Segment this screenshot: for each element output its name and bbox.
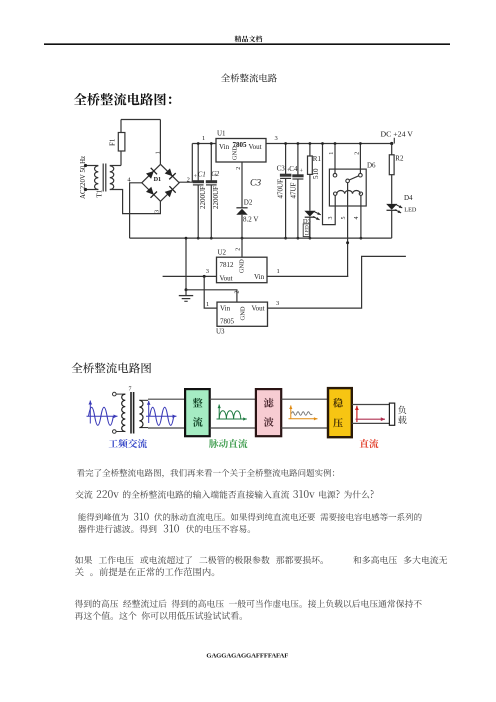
wire to regulator bottom xyxy=(281,427,328,429)
wire node3 to U3 Vin xyxy=(204,276,217,308)
svg-text:D2: D2 xyxy=(244,199,253,207)
transformer secondary coil xyxy=(110,166,114,190)
svg-text:T1: T1 xyxy=(96,189,104,197)
caption 直流 xyxy=(360,439,379,448)
caption 脉动直流 xyxy=(209,439,247,448)
svg-text:4: 4 xyxy=(354,217,360,220)
svg-text:AC220V 50 Hz: AC220V 50 Hz xyxy=(80,156,87,199)
svg-text:5: 5 xyxy=(341,217,347,220)
wire to filter top xyxy=(210,398,256,400)
svg-text:1: 1 xyxy=(154,151,161,154)
svg-text:Vout: Vout xyxy=(249,143,262,151)
fuse F1 xyxy=(118,133,125,152)
LED D4 arrow 2 xyxy=(395,210,401,213)
paragraph 4 line 2 xyxy=(75,567,214,576)
wire top run to bridge xyxy=(121,119,160,121)
paragraph 3 line 1 xyxy=(78,513,422,521)
heading 全桥整流电路图： xyxy=(74,93,172,106)
load resistor xyxy=(389,403,394,425)
caption 工频交流 xyxy=(109,439,147,448)
svg-text:2: 2 xyxy=(235,291,241,294)
diode D1a (left-top edge) xyxy=(146,171,154,179)
junction C3 bottom xyxy=(284,237,287,240)
svg-text:3: 3 xyxy=(154,210,161,213)
svg-text:LED: LED xyxy=(404,207,417,214)
wire fuse bottom lead xyxy=(120,151,122,166)
svg-text:D1: D1 xyxy=(154,176,162,183)
wire secondary top to fuse xyxy=(110,165,121,167)
svg-text:7812: 7812 xyxy=(220,261,235,269)
wire R1 to D3 xyxy=(309,174,311,210)
paragraph 1 xyxy=(77,469,334,478)
junction D3 bus xyxy=(309,237,312,240)
transformer primary coil xyxy=(95,166,99,190)
node AC input top terminal xyxy=(84,164,87,167)
wire relay pin 2 xyxy=(359,144,361,174)
node AC input bottom terminal xyxy=(84,188,87,191)
wire relay pin 3 inside xyxy=(334,195,336,206)
svg-text:47UF: 47UF xyxy=(290,182,298,198)
svg-text:2: 2 xyxy=(354,152,360,155)
block transformer core xyxy=(130,392,132,434)
header 精品文档 xyxy=(235,36,263,43)
wire R2 to D4 xyxy=(391,175,393,204)
junction C4 top xyxy=(297,142,300,145)
wire to rectifier bottom xyxy=(148,427,185,429)
wire U2 Vin to relay pin5 xyxy=(267,275,348,277)
wire node 4 down to bus xyxy=(130,183,142,238)
title 全桥整流电路 xyxy=(221,74,277,83)
wire U1 GND down to D2 xyxy=(241,162,243,208)
arrow DC horizontal xyxy=(356,418,386,420)
junction ground bus xyxy=(185,237,188,240)
paragraph 3 line 2 xyxy=(78,525,250,533)
resistor R1 xyxy=(308,156,313,174)
svg-text:+: + xyxy=(300,169,304,175)
relay D6 xyxy=(329,169,366,206)
wire +24V rail xyxy=(266,143,392,145)
wire ground to U3 GND pin xyxy=(186,290,237,302)
junction node 3 (U2 out) xyxy=(203,275,206,278)
junction C2 top xyxy=(210,142,213,145)
svg-text:Vin: Vin xyxy=(254,273,265,281)
wire fuse top lead xyxy=(120,120,122,133)
regulator U1 7805 xyxy=(216,139,266,163)
relay contact right xyxy=(359,173,363,177)
svg-text:R1: R1 xyxy=(313,155,322,163)
svg-text:7: 7 xyxy=(129,387,132,393)
svg-text:7805: 7805 xyxy=(220,318,235,326)
svg-text:C3: C3 xyxy=(250,179,261,189)
svg-text:D4: D4 xyxy=(404,194,413,202)
regulator U3 7805 xyxy=(217,302,268,326)
relay coil terminal right xyxy=(359,192,362,195)
wire down into bridge node 1 xyxy=(159,120,161,165)
regulator U2 7812 xyxy=(217,257,268,283)
svg-text:2: 2 xyxy=(235,248,241,251)
capacitor C4 47UF xyxy=(297,144,299,175)
LED D3 xyxy=(304,211,315,217)
svg-text:GAGGAGAGGAFFFFAFAF: GAGGAGAGGAFFFFAFAF xyxy=(206,652,288,659)
junction ground node xyxy=(185,288,188,291)
svg-text:GND: GND xyxy=(239,306,246,320)
svg-text:2: 2 xyxy=(236,167,242,170)
svg-text:470UF: 470UF xyxy=(277,179,285,199)
svg-text:F1: F1 xyxy=(109,138,117,146)
block transformer xyxy=(113,392,117,396)
svg-text:1: 1 xyxy=(202,135,205,142)
wire rail into U1 Vin xyxy=(192,143,216,145)
transformer core line left xyxy=(102,164,104,192)
junction C4 bottom xyxy=(297,237,300,240)
wire relay pin 1 xyxy=(334,144,336,174)
arrow DC vertical xyxy=(356,406,358,422)
junction relay pin1 rail xyxy=(334,142,337,145)
junction C1 top xyxy=(197,142,200,145)
wire to rectifier top xyxy=(148,398,185,400)
transformer core line right xyxy=(105,164,107,192)
junction C1 bottom xyxy=(197,237,200,240)
wire U3 Vout output xyxy=(268,256,406,308)
relay switch arm xyxy=(349,176,359,180)
svg-text:GND: GND xyxy=(239,259,246,273)
LED D4 xyxy=(386,204,397,210)
wire relay pin 4 down to bus xyxy=(360,195,362,238)
junction C3 top xyxy=(284,142,287,145)
block 稳压 xyxy=(328,388,352,437)
capacitor C3 470UF xyxy=(285,144,287,175)
block 滤波 xyxy=(256,389,281,436)
input sine waveform xyxy=(89,401,91,424)
ground xyxy=(185,238,187,290)
paragraph 5 line 1 xyxy=(75,600,422,608)
capacitor C2 2200UF xyxy=(210,144,212,181)
svg-text:C2: C2 xyxy=(211,171,220,178)
wire to filter bottom xyxy=(210,427,256,429)
wire bus to U2 GND pin xyxy=(241,238,243,257)
svg-text:1: 1 xyxy=(329,152,335,155)
wire ground bus xyxy=(130,237,392,239)
ripple waveform xyxy=(290,405,292,418)
svg-text:U1: U1 xyxy=(217,130,226,138)
resistor R2 xyxy=(389,155,394,175)
svg-text:2200UF: 2200UF xyxy=(199,186,207,209)
junction pin3-wire rail xyxy=(321,142,324,145)
block transformer primary coil xyxy=(122,394,126,431)
header rule xyxy=(44,43,450,45)
bridge rectifier D1 diamond xyxy=(142,164,179,201)
wire D2 to bus xyxy=(241,215,243,238)
svg-text:GND: GND xyxy=(231,146,238,160)
svg-text:3: 3 xyxy=(206,268,209,275)
svg-text:3: 3 xyxy=(276,300,279,307)
svg-text:U2: U2 xyxy=(218,248,227,256)
svg-text:C1: C1 xyxy=(198,171,206,178)
wire node 2 up to rail xyxy=(179,144,192,183)
paragraph 5 line 2 xyxy=(75,612,242,620)
svg-text:DC +24 V: DC +24 V xyxy=(381,129,414,138)
wire D4 to bus xyxy=(391,210,393,238)
junction C2 bottom xyxy=(210,237,213,240)
paragraph 4 line 1 xyxy=(75,556,447,564)
svg-text:U3: U3 xyxy=(216,328,225,336)
junction R1 rail xyxy=(309,142,312,145)
rectified humps waveform xyxy=(218,405,220,420)
svg-text:R2: R2 xyxy=(395,155,404,163)
zener diode D2 8.2V xyxy=(236,207,247,209)
block 整流 xyxy=(185,389,210,436)
svg-text:1: 1 xyxy=(277,268,280,275)
wire U2 Vout stub xyxy=(163,275,217,277)
junction DC +24V xyxy=(390,142,393,145)
junction D2 bus xyxy=(241,237,244,240)
wire to load bottom xyxy=(352,422,390,424)
svg-text:1: 1 xyxy=(206,301,209,308)
wire to load top xyxy=(352,404,390,406)
svg-text:Vin: Vin xyxy=(220,305,231,313)
wire rail to R1 xyxy=(309,144,311,157)
diode D1b (top-right edge) xyxy=(165,168,173,176)
paragraph 2 xyxy=(75,490,373,498)
svg-text:Vout: Vout xyxy=(252,305,265,313)
relay coil terminal left xyxy=(334,192,337,195)
caption 全桥整流电路图 xyxy=(72,363,151,374)
junction relay pin2 rail xyxy=(359,142,362,145)
svg-text:D6: D6 xyxy=(367,162,376,170)
svg-text:3: 3 xyxy=(328,217,334,220)
wire DC label stub xyxy=(393,138,395,144)
block transformer secondary coil xyxy=(139,400,143,427)
wire AC input top stub xyxy=(86,165,99,167)
svg-text:510: 510 xyxy=(312,168,320,179)
svg-text:Vout: Vout xyxy=(220,275,233,283)
LED D4 arrow 1 xyxy=(396,205,402,208)
svg-text:8.2 V: 8.2 V xyxy=(243,216,258,224)
label 负载 xyxy=(398,406,406,414)
wire D3 to bus xyxy=(309,217,311,238)
relay contact common xyxy=(346,179,350,183)
wire rail to R2 xyxy=(391,144,393,155)
wire relay pin 5 down to U2 xyxy=(347,183,349,277)
LED D3 arrow 1 xyxy=(314,212,321,215)
capacitor C1 2200UF xyxy=(197,144,199,181)
svg-text:Vin: Vin xyxy=(219,143,230,151)
wire secondary bottom to bridge node 3 xyxy=(110,190,161,214)
svg-text:C3: C3 xyxy=(277,165,286,173)
svg-text:C4: C4 xyxy=(289,165,298,173)
wire AC input bottom stub xyxy=(86,189,99,191)
relay contact left xyxy=(333,173,337,177)
LED D3 arrow 2 xyxy=(313,217,320,220)
svg-text:3: 3 xyxy=(275,135,278,142)
secondary sine waveform xyxy=(148,401,150,423)
wire rail to relay pin 3 xyxy=(323,144,336,225)
diode D1c (left-bottom edge) xyxy=(146,187,154,195)
junction relay pin5 below bus xyxy=(346,241,349,244)
wire to regulator top xyxy=(281,398,328,400)
label box LED (D3) xyxy=(303,224,309,237)
diode D1d (bottom-right edge) xyxy=(165,189,173,197)
relay coil xyxy=(337,191,360,194)
junction relay pin4 bus xyxy=(360,237,363,240)
svg-text:2200UF: 2200UF xyxy=(212,186,220,209)
